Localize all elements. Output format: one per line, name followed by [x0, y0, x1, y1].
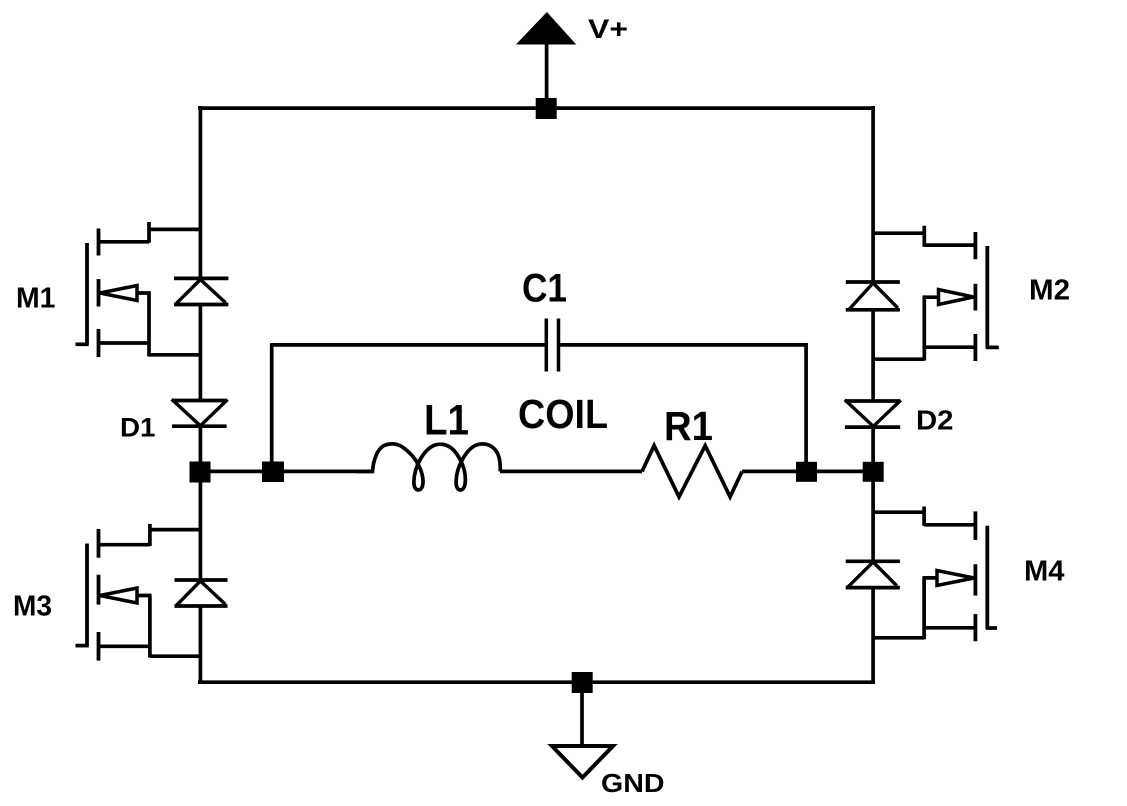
wire C1 right branch	[559, 343, 808, 471]
svg-text:COIL: COIL	[518, 391, 608, 437]
M1 channel dash top	[97, 229, 101, 256]
diode M4 body diode	[846, 561, 900, 587]
M1 gate bar	[85, 243, 89, 344]
wire left rail	[199, 106, 203, 684]
M4 drain lead	[873, 507, 975, 526]
wire V+ stem	[545, 44, 549, 109]
M4 channel dash top	[974, 511, 978, 540]
M3 channel dash middle	[97, 575, 101, 605]
wire top rail V+ bus	[198, 106, 875, 110]
power symbol V+ (filled triangle)	[516, 12, 576, 45]
M4 gate bar	[985, 526, 989, 629]
svg-text:M4: M4	[1024, 556, 1065, 588]
transistor M4 (lower-right NMOS, mirrored)	[873, 507, 997, 642]
node junction mid-left rail	[190, 462, 211, 483]
wire right rail	[871, 106, 875, 684]
M4 body arrow	[937, 571, 974, 586]
diode M2 body diode	[846, 282, 900, 310]
resistor R1 (zigzag)	[642, 446, 742, 497]
M3 source lead	[99, 596, 201, 658]
M2 gate lead	[986, 346, 999, 350]
svg-text:GND: GND	[601, 770, 665, 798]
svg-text:L1: L1	[424, 397, 469, 445]
M2 channel dash bottom	[974, 334, 978, 361]
M4 channel dash middle	[974, 564, 978, 595]
transistor M1 (upper-left NMOS)	[76, 222, 201, 357]
M2 gate bar	[985, 246, 989, 347]
svg-text:R1: R1	[664, 403, 713, 449]
node junction mid-right rail	[863, 462, 884, 482]
diode D1	[172, 399, 228, 426]
svg-text:M3: M3	[13, 591, 52, 623]
svg-text:M1: M1	[16, 283, 56, 315]
wire mid net right (R1 to node)	[742, 470, 873, 474]
M3 body arrow	[100, 588, 137, 603]
M4 source lead	[873, 578, 975, 639]
wire C1 left branch	[270, 345, 546, 472]
M1 drain lead	[99, 222, 201, 243]
ground symbol GND (open triangle)	[552, 746, 613, 778]
M3 gate bar	[85, 544, 89, 646]
svg-text:M2: M2	[1029, 275, 1070, 307]
M3 drain lead	[99, 524, 201, 546]
transistor M2 (upper-right NMOS, mirrored)	[873, 226, 999, 361]
diode M1 body diode	[174, 278, 228, 304]
node junction at V+	[536, 98, 557, 119]
capacitor C1 plates	[546, 319, 558, 372]
M2 drain lead	[873, 226, 975, 247]
M1 channel dash middle	[97, 279, 101, 307]
diode D2	[845, 400, 901, 427]
node junction C1 left	[262, 462, 284, 483]
M2 source lead	[873, 297, 975, 360]
M1 source lead	[99, 293, 201, 357]
svg-text:V+: V+	[588, 14, 628, 44]
M1 channel dash bottom	[97, 329, 101, 357]
svg-text:D2: D2	[916, 405, 954, 436]
wire bottom rail GND bus	[198, 680, 875, 684]
transistor M3 (lower-left NMOS)	[76, 524, 201, 661]
M3 gate lead	[76, 644, 89, 648]
node junction GND	[572, 672, 593, 693]
M4 gate lead	[986, 626, 997, 630]
M4 channel dash bottom	[974, 614, 978, 641]
wire GND stem	[580, 682, 584, 746]
wire mid net center (L1 to R1)	[500, 470, 642, 474]
M1 gate lead	[76, 342, 89, 346]
inductor L1 (hand-drawn coil)	[355, 444, 500, 490]
svg-text:C1: C1	[522, 267, 567, 311]
M2 body arrow	[939, 290, 974, 305]
diode M3 body diode	[175, 580, 228, 606]
wire mid net left (node to L1)	[200, 470, 373, 474]
svg-text:D1: D1	[120, 413, 156, 443]
M2 channel dash middle	[974, 284, 978, 311]
M1 body arrow	[100, 286, 137, 301]
M3 channel dash top	[97, 529, 101, 558]
node junction C1 right	[796, 462, 817, 482]
M2 channel dash top	[974, 232, 978, 259]
M3 channel dash bottom	[97, 632, 101, 661]
